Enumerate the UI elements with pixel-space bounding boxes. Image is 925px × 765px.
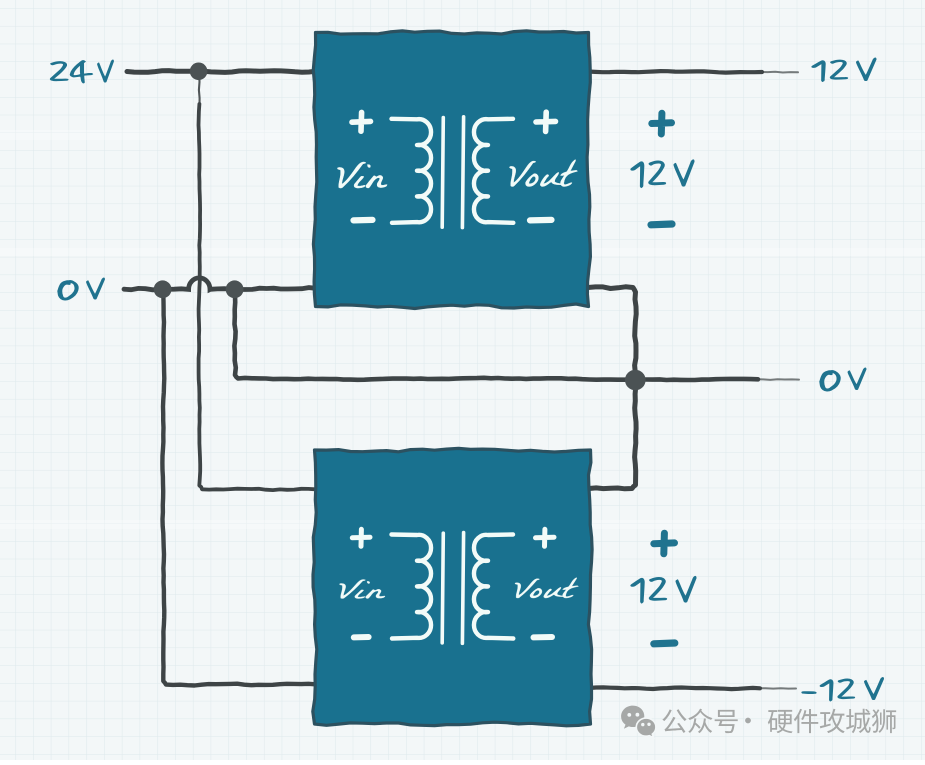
net label 12 V top right [812, 60, 848, 82]
wire 0V input horizontal with hop over 24V branch [124, 278, 316, 290]
wire 12V output from U1 to label [588, 71, 762, 73]
secondary winding L2 (U2) [474, 535, 513, 639]
transformer core (U2) [442, 533, 443, 643]
junction dot 0V node A [154, 280, 172, 298]
DC-DC converter module U1 [313, 31, 590, 309]
wire junction down to U2 Vout+ [589, 380, 636, 489]
wire U2 Vout- to -12V label [589, 687, 760, 689]
wire U1 Vout- to junction (down) [588, 287, 636, 380]
primary winding L1 [392, 119, 432, 223]
junction dot 0V node B [226, 280, 244, 298]
wire 0V output bus [234, 295, 758, 380]
U2 label Vout [515, 577, 578, 598]
pin label Vin+ [352, 112, 371, 131]
output polarity minus U1 [651, 220, 672, 228]
pin label Vout+ [536, 112, 556, 131]
U1 label Vout [510, 159, 578, 186]
junction dot 24V node [190, 63, 208, 81]
pin label Vout- [530, 217, 552, 224]
junction dot 0V output node [625, 370, 646, 391]
output voltage 12 V (U2) [631, 578, 667, 603]
U2 label Vin [339, 579, 384, 598]
wire 24V branch down to U2 Vin+ (passes under hop) [198, 74, 201, 106]
primary winding L1 (U2) [392, 535, 432, 639]
watermark text 公众号 · 硬件攻城狮 [662, 709, 896, 734]
U1 label Vin [337, 162, 386, 188]
net label 24 V [50, 61, 92, 83]
transformer core [442, 118, 443, 228]
pin label Vin- [354, 217, 373, 224]
pin label Vout- (U2) [534, 634, 553, 640]
output polarity plus U1 [652, 113, 672, 134]
output voltage 12 V (U1) [631, 161, 665, 188]
pin label Vin- (U2) [354, 634, 369, 640]
watermark WeChat icon [621, 706, 656, 738]
output polarity plus U2 [654, 533, 675, 554]
net label 0 V input [58, 281, 78, 300]
net label 0 V output right [820, 370, 840, 391]
wire 0V branch to U2 Vin- [162, 294, 315, 686]
output polarity minus U2 [654, 639, 675, 647]
secondary winding L2 [474, 119, 513, 223]
net label -12 V bottom right [802, 679, 854, 701]
wire 24V input horizontal [127, 71, 316, 73]
DC-DC converter module U2 [313, 448, 592, 725]
pin label Vout+ (U2) [536, 529, 555, 546]
pin label Vin+ (U2) [352, 529, 370, 546]
